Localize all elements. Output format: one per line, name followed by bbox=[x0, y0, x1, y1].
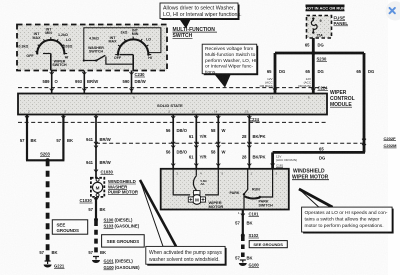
wire 993 BR/W label bbox=[75, 79, 98, 84]
ground G100 bbox=[239, 260, 260, 268]
connector line C224 top row bbox=[18, 87, 327, 89]
wiper control module (solid state) bbox=[18, 94, 327, 115]
windshield washer pump motor bbox=[91, 178, 104, 197]
wire 589 O label bbox=[43, 79, 59, 84]
wire 590 DB/W label bbox=[123, 79, 146, 84]
wire 65 DG to module pin (left branch) bbox=[260, 53, 286, 94]
connector line C202 bbox=[96, 142, 364, 144]
connector C101 bbox=[249, 212, 260, 217]
windshield wiper motor title bbox=[292, 168, 329, 180]
ground wire below S100 bbox=[88, 221, 106, 256]
ground G101/G100 bbox=[92, 257, 140, 270]
wire fuse to S230, 65 DG bbox=[305, 38, 324, 53]
connector C202F/C202M labels bbox=[384, 136, 398, 148]
multi-function switch box bbox=[17, 25, 167, 71]
right dial labels bbox=[109, 28, 152, 60]
module pin numbers top bbox=[53, 96, 310, 100]
park switch: pin3 elbow bbox=[259, 169, 273, 198]
wiper motor internal: pin5 to high brush bbox=[205, 169, 218, 195]
wire 56 DB/O bbox=[166, 115, 188, 169]
wire 57 BK (module pin 5) bbox=[56, 115, 73, 161]
splice S230 bbox=[311, 51, 327, 62]
multi-function switch title bbox=[173, 27, 218, 39]
wire 65 DG drop into motor bbox=[271, 152, 297, 168]
fuse 9 bbox=[311, 17, 323, 37]
hot in acc or run tag bbox=[305, 5, 345, 12]
splice S102 bbox=[241, 233, 259, 238]
see grounds box (middle) bbox=[102, 235, 145, 247]
wire 58 W bbox=[211, 115, 226, 169]
close button overlay bbox=[386, 1, 400, 20]
MFS output wires to module bbox=[50, 71, 134, 94]
connector C1030 bottom bbox=[80, 198, 99, 203]
ground G221 bbox=[44, 261, 65, 269]
wiper motor internal: pin2 to low brush bbox=[173, 169, 190, 195]
wiper control module label bbox=[330, 90, 355, 108]
callout: allows driver to select bbox=[160, 3, 242, 29]
wire 57 BK below pump bbox=[88, 197, 105, 220]
wiper motor M bbox=[188, 191, 205, 205]
power bus wire bbox=[275, 52, 364, 55]
see grounds box (right) bbox=[249, 241, 287, 248]
callout: operates at LO or HI bbox=[299, 189, 394, 234]
ground wire to G100 bbox=[235, 237, 252, 261]
park switch blade bbox=[244, 194, 260, 209]
motor pin numbers bbox=[177, 172, 278, 176]
wiper switch rotary (left dial) bbox=[36, 37, 68, 70]
wire 57 BK below motor bbox=[235, 209, 252, 236]
connector C230 bbox=[135, 72, 146, 77]
wiper motor label bbox=[209, 200, 224, 209]
windshield wiper motor box bbox=[161, 169, 289, 210]
washer switch labels bbox=[88, 37, 104, 54]
park switch: pin1 arm bbox=[230, 169, 261, 196]
wire 65 DG to module pin (middle branch) bbox=[298, 53, 324, 94]
inner switch frame bbox=[84, 28, 161, 61]
wiper motor internal: pin4 loop to armature bbox=[193, 169, 207, 191]
wire 941 BR/W upper bbox=[86, 115, 111, 178]
see grounds box (left) bbox=[52, 220, 87, 234]
fuse panel label bbox=[334, 16, 349, 26]
callout: when activated pump sprays bbox=[140, 180, 227, 266]
splice S100/S103 bbox=[94, 217, 140, 228]
wire 65 DG horizontal to motor bbox=[273, 146, 365, 160]
wire 57 BK (module pin 3) bbox=[20, 115, 37, 161]
module pin numbers bottom bbox=[28, 110, 249, 114]
interval wiper rotary (right dial) bbox=[115, 37, 151, 71]
splice S203 bbox=[26, 152, 64, 163]
park switch label bbox=[259, 199, 274, 207]
callout: receives voltage bbox=[202, 44, 258, 87]
connector line C224 bottom row bbox=[18, 117, 327, 122]
ground wire 57 BK to G221 bbox=[39, 160, 57, 261]
wire 61 Y/R bbox=[189, 115, 207, 169]
washer switch bbox=[83, 55, 133, 64]
connector C1030 top bbox=[94, 170, 114, 175]
connector C224 top label bbox=[318, 86, 329, 91]
wire 65 DG right branch down bbox=[356, 53, 374, 152]
left dial labels bbox=[17, 28, 73, 68]
washer pump motor label bbox=[108, 179, 139, 195]
wire 28 BK/PK bbox=[242, 115, 266, 169]
fuse panel box bbox=[307, 16, 332, 39]
